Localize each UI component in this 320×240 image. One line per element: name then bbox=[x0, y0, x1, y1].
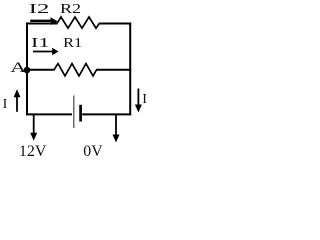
current arrow I2 bbox=[30, 17, 57, 25]
svg-text:0V: 0V bbox=[83, 143, 103, 159]
label R2 bbox=[60, 2, 81, 17]
svg-text:A: A bbox=[10, 60, 26, 76]
wire bottom right segment bbox=[82, 113, 131, 115]
battery negative plate (short) bbox=[79, 105, 82, 122]
svg-text:I: I bbox=[142, 92, 147, 107]
resistor R2 bbox=[57, 17, 100, 28]
arrow to 12V terminal bbox=[30, 115, 37, 141]
wire right vertical bbox=[129, 23, 131, 116]
svg-text:I2: I2 bbox=[29, 2, 50, 17]
current arrow I1 bbox=[33, 48, 59, 55]
svg-text:12V: 12V bbox=[19, 143, 47, 159]
wire top left segment bbox=[26, 23, 58, 25]
wire top right segment bbox=[99, 23, 131, 25]
label I (left) bbox=[3, 97, 8, 112]
arrow to 0V terminal bbox=[113, 115, 120, 142]
label I2 bbox=[29, 2, 50, 17]
svg-text:R2: R2 bbox=[60, 2, 81, 17]
svg-text:I1: I1 bbox=[31, 36, 50, 51]
node A junction dot bbox=[24, 67, 31, 74]
wire middle right segment bbox=[96, 69, 131, 71]
label R1 bbox=[63, 36, 82, 51]
label 0V bbox=[83, 143, 103, 160]
label I (right) bbox=[142, 92, 147, 107]
svg-text:R1: R1 bbox=[63, 36, 82, 51]
svg-text:I: I bbox=[3, 97, 8, 112]
label I1 bbox=[31, 36, 50, 51]
label 12V bbox=[19, 143, 47, 160]
current arrow I (right, downward) bbox=[135, 89, 142, 113]
resistor R1 bbox=[54, 64, 97, 76]
battery positive plate (long) bbox=[73, 96, 75, 129]
label node A bbox=[10, 60, 26, 76]
current arrow I (left, upward) bbox=[14, 89, 21, 112]
wire left vertical bbox=[26, 22, 28, 115]
wire middle left segment bbox=[27, 69, 55, 71]
wire bottom left segment bbox=[26, 113, 72, 115]
